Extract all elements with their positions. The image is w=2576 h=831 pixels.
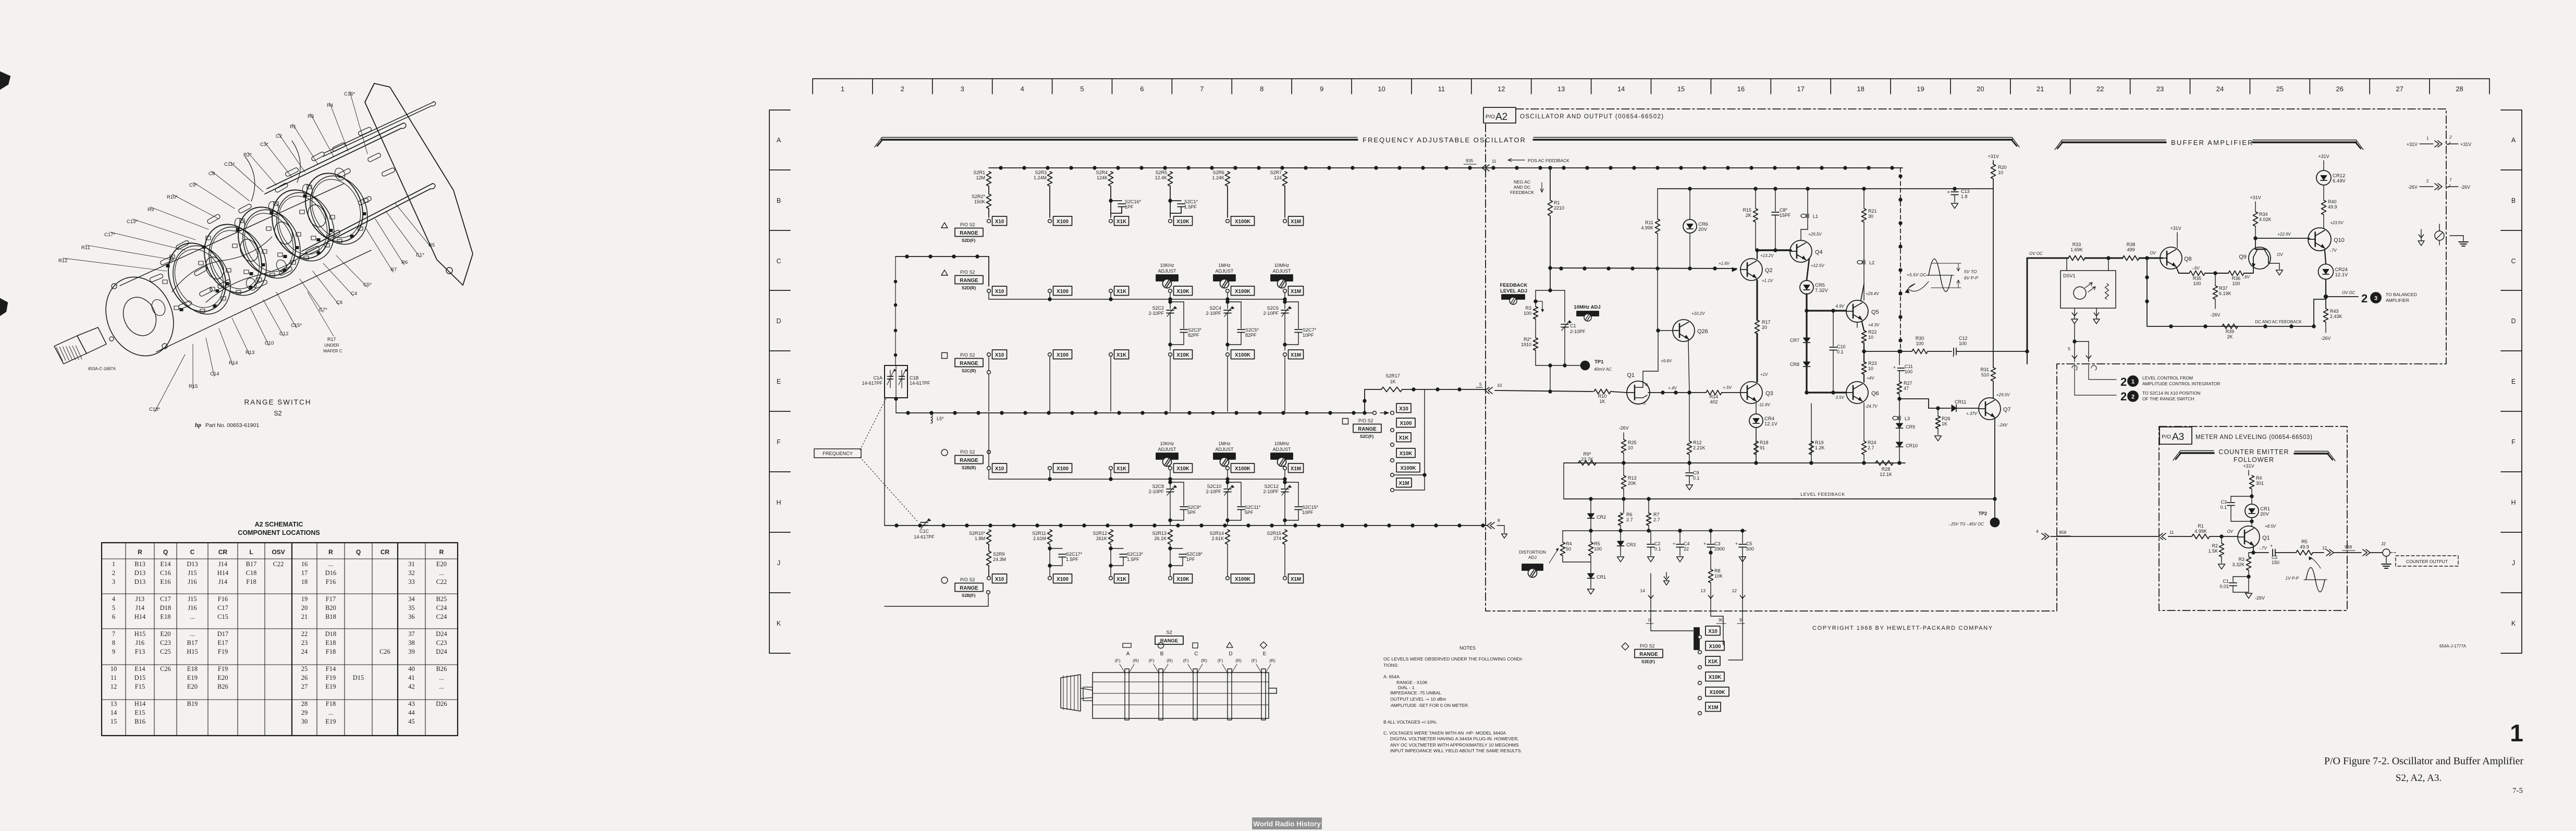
svg-text:C12: C12: [279, 331, 288, 337]
rotor hubs: [202, 254, 227, 282]
svg-text:F18: F18: [326, 700, 336, 707]
svg-text:S2C9*: S2C9*: [1187, 505, 1201, 510]
svg-text:27: 27: [301, 683, 308, 690]
svg-text:B16: B16: [134, 718, 145, 725]
svg-text:2: 2: [2449, 135, 2452, 140]
svg-text:OUTPUT LEVEL -+ 10 dBm: OUTPUT LEVEL -+ 10 dBm: [1390, 696, 1446, 702]
svg-text:...: ...: [328, 560, 333, 568]
svg-text:R12: R12: [1693, 440, 1702, 445]
svg-text:UNDER: UNDER: [324, 343, 339, 348]
svg-text:H14: H14: [134, 613, 146, 620]
svg-text:100: 100: [1524, 311, 1531, 316]
resistor S2R9: [988, 544, 989, 551]
svg-text:124K: 124K: [1097, 175, 1108, 180]
svg-text:+31V: +31V: [2318, 154, 2329, 159]
contact X10 row5: [987, 577, 991, 580]
svg-text:Q3: Q3: [1765, 390, 1773, 397]
svg-text:P/O: P/O: [2162, 434, 2171, 440]
drum right stub: [1269, 688, 1277, 689]
svg-text:F19: F19: [326, 674, 336, 681]
svg-text:H15: H15: [187, 648, 198, 655]
sine wave annotation: [1929, 259, 1952, 291]
left row-letter column: [769, 110, 790, 653]
transistor Q8: [2160, 247, 2182, 269]
svg-text:ADJUST: ADJUST: [1272, 447, 1291, 452]
capacitor C1 0.01: [2233, 576, 2249, 577]
svg-text:S2R2*: S2R2*: [972, 194, 986, 199]
inductor L5*: [931, 414, 933, 423]
trimmer capacitor S2C2: [1170, 299, 1171, 309]
lamp-photocell DSV1: [2066, 258, 2067, 271]
pot R4 50: [1562, 531, 1563, 542]
capacitor S2C11*: [1226, 481, 1229, 484]
Q4 emitter chain CR5: [1807, 259, 1809, 280]
svg-text:F19: F19: [218, 665, 228, 673]
svg-text:2900: 2900: [1714, 546, 1725, 552]
svg-text:FREQUENCY ADJUSTABLE OSCILLATO: FREQUENCY ADJUSTABLE OSCILLATOR: [1363, 136, 1526, 144]
svg-text:hp: hp: [195, 422, 201, 429]
svg-text:499: 499: [2127, 247, 2135, 252]
svg-text:P/O S2: P/O S2: [960, 449, 975, 455]
svg-text:18: 18: [1857, 85, 1864, 93]
svg-text:1.2K: 1.2K: [1815, 445, 1825, 450]
svg-text:5PF: 5PF: [1187, 510, 1196, 515]
svg-text:DC ANO AC FEEOBACK: DC ANO AC FEEOBACK: [2255, 320, 2302, 324]
contact X1M row3: [1283, 353, 1287, 357]
svg-text:X10K: X10K: [1176, 219, 1189, 225]
resistor R26 1K: [1937, 408, 1939, 416]
svg-text:S2: S2: [274, 410, 281, 417]
svg-text:10: 10: [111, 665, 117, 673]
svg-text:R15: R15: [189, 384, 198, 389]
svg-text:0.1: 0.1: [2220, 505, 2227, 510]
svg-text:R2: R2: [2212, 543, 2218, 548]
svg-text:RANGE: RANGE: [1358, 426, 1377, 432]
transistor Q2: [1740, 259, 1762, 280]
svg-text:X1M: X1M: [1291, 466, 1301, 472]
svg-text:23: 23: [2156, 85, 2164, 93]
svg-text:C22: C22: [436, 578, 447, 585]
svg-text:A. 654A.: A. 654A.: [1383, 674, 1401, 679]
svg-text:-.6V: -.6V: [2192, 266, 2200, 271]
svg-text:S2D(R): S2D(R): [962, 286, 976, 290]
svg-text:301: 301: [2256, 481, 2264, 486]
svg-text:S2C11*: S2C11*: [1245, 505, 1261, 510]
svg-text:2: 2: [112, 569, 115, 577]
svg-text:X1K: X1K: [1117, 289, 1126, 295]
svg-text:CR1: CR1: [1597, 575, 1606, 580]
svg-text:R: R: [439, 548, 444, 556]
contact X10K row1: [1169, 219, 1172, 223]
bus row C short: [896, 256, 989, 257]
svg-text:20V: 20V: [1698, 227, 1708, 233]
svg-text:510: 510: [1981, 372, 1989, 377]
svg-text:C11: C11: [1905, 364, 1913, 369]
svg-text:S2D(F): S2D(F): [962, 238, 976, 243]
svg-text:R35: R35: [2193, 276, 2202, 281]
svg-text:R25: R25: [1628, 440, 1637, 445]
contact X100 row3: [1048, 353, 1052, 357]
gang line vertical left: [895, 256, 896, 365]
svg-text:1MHz: 1MHz: [1218, 441, 1231, 446]
svg-text:X100K: X100K: [1401, 466, 1416, 471]
svg-text:14-617PF: 14-617PF: [862, 381, 882, 386]
svg-text:X100: X100: [1057, 577, 1069, 582]
svg-text:31: 31: [408, 560, 415, 568]
svg-text:1.8: 1.8: [1961, 194, 1968, 199]
svg-text:4: 4: [1021, 85, 1024, 93]
svg-text:S2R4: S2R4: [1096, 170, 1108, 175]
svg-text:7-5: 7-5: [2512, 787, 2523, 795]
svg-text:D15: D15: [134, 674, 146, 681]
resistor R17 20: [1755, 320, 1760, 334]
svg-text:5: 5: [1080, 85, 1084, 93]
svg-text:S2, A2, A3.: S2, A2, A3.: [2396, 773, 2442, 784]
svg-text:9: 9: [112, 648, 115, 655]
svg-text:LEVEL FEEDBACK: LEVEL FEEDBACK: [1800, 492, 1845, 497]
drum switch drawing: [1093, 673, 1269, 718]
wire to Q7 base with CR11: [1899, 398, 1929, 399]
svg-text:21: 21: [301, 613, 308, 620]
svg-text:X10K: X10K: [1176, 289, 1189, 295]
svg-text:15PF: 15PF: [1780, 213, 1791, 218]
svg-text:S2R9: S2R9: [993, 552, 1005, 557]
svg-text:RANGE: RANGE: [960, 585, 978, 591]
inductor L3: [1893, 417, 1898, 420]
svg-text:X10K: X10K: [1176, 352, 1189, 358]
svg-text:10: 10: [1868, 366, 1873, 371]
svg-text:X1M: X1M: [1291, 219, 1301, 225]
svg-text:S2C17*: S2C17*: [1066, 552, 1083, 557]
svg-text:R6: R6: [1626, 512, 1633, 517]
svg-text:E18: E18: [187, 665, 198, 673]
DSV1 to external references: [2074, 324, 2075, 341]
svg-text:13: 13: [1701, 588, 1706, 593]
svg-text:S2R17: S2R17: [1385, 373, 1400, 378]
svg-text:RANGE - X10K: RANGE - X10K: [1396, 680, 1428, 685]
svg-text:X10: X10: [995, 577, 1004, 582]
svg-text:B: B: [2511, 197, 2516, 204]
svg-text:100: 100: [1594, 546, 1602, 552]
capacitor S2C1*: [1169, 199, 1172, 202]
svg-text:32: 32: [408, 569, 415, 577]
svg-text:COUNTER EMITTER: COUNTER EMITTER: [2218, 448, 2289, 456]
svg-text:12.4K: 12.4K: [1155, 175, 1167, 180]
testpoint TP1: [1581, 361, 1590, 370]
svg-text:28: 28: [301, 700, 308, 707]
svg-text:L: L: [249, 548, 253, 556]
svg-text:14-617PF: 14-617PF: [914, 534, 935, 540]
svg-text:0.1: 0.1: [1837, 349, 1844, 355]
svg-text:2.7: 2.7: [1626, 517, 1633, 522]
resistor R13 20K: [1623, 463, 1624, 475]
contact X1K row3: [1109, 353, 1113, 357]
svg-text:0.1: 0.1: [1654, 546, 1661, 552]
svg-text:+31V: +31V: [2243, 463, 2254, 469]
svg-text:34: 34: [408, 595, 415, 603]
svg-text:AMPLITUDE -SET FOR 0 ON METER.: AMPLITUDE -SET FOR 0 ON METER.: [1391, 703, 1469, 708]
svg-text:C23: C23: [436, 639, 447, 646]
diode CR9: [1899, 399, 1900, 423]
svg-text:DIGITAL VOLTMETER HAVING A 344: DIGITAL VOLTMETER HAVING A 3443A PLUG-IN…: [1390, 736, 1519, 741]
svg-text:1K: 1K: [1390, 379, 1395, 384]
svg-text:R27: R27: [1904, 381, 1912, 386]
svg-text:2-10PF: 2-10PF: [1206, 311, 1221, 316]
Q7 emitter to TP2: [1994, 418, 1995, 499]
svg-text:R3: R3: [2238, 557, 2244, 562]
svg-text:X1M: X1M: [1291, 289, 1301, 295]
diode CR7: [1804, 338, 1810, 343]
svg-text:AMPLIFIER: AMPLIFIER: [2386, 298, 2409, 303]
row4 link wire: [989, 479, 1285, 480]
svg-text:ADJUST: ADJUST: [1215, 447, 1234, 452]
svg-text:X100: X100: [1057, 352, 1069, 358]
Q9 collector to ground: [2268, 263, 2279, 264]
svg-text:Q5: Q5: [1871, 309, 1879, 315]
resistor R30 100: [1912, 349, 1928, 354]
svg-text:Q4: Q4: [1815, 249, 1823, 255]
svg-text:A2: A2: [1495, 112, 1507, 123]
svg-text:E14: E14: [134, 665, 145, 673]
svg-text:6: 6: [112, 613, 115, 620]
reference 2-1 LEVEL CONTROL: [2088, 365, 2089, 380]
svg-text:42: 42: [408, 683, 415, 690]
svg-text:X1K: X1K: [1399, 435, 1408, 441]
A3 assembly dashed boundary: [2159, 426, 2347, 610]
svg-text:7: 7: [1200, 85, 1204, 93]
svg-text:J15: J15: [188, 595, 197, 603]
trimmer capacitor S2C12: [1284, 479, 1285, 488]
resistor R20 10: [1991, 164, 1996, 179]
diode CR10: [1899, 429, 1900, 442]
svg-text:3.32K: 3.32K: [2232, 562, 2244, 567]
svg-text:D24: D24: [436, 648, 447, 655]
svg-text:F13: F13: [135, 648, 145, 655]
capacitor S2C7*: [1283, 300, 1286, 303]
svg-text:E14: E14: [160, 560, 171, 568]
svg-text:P/O S2: P/O S2: [1640, 643, 1654, 649]
zener CR24 12.1V: [2319, 264, 2334, 279]
svg-text:X100K: X100K: [1235, 219, 1250, 225]
svg-text:CR: CR: [381, 548, 390, 556]
svg-text:7: 7: [2449, 178, 2452, 182]
svg-text:R22: R22: [1868, 329, 1877, 335]
svg-text:12: 12: [1498, 85, 1505, 93]
svg-text:12M: 12M: [976, 175, 985, 180]
svg-text:47: 47: [1904, 386, 1909, 391]
svg-text:X100: X100: [1057, 289, 1069, 295]
svg-text:2: 2: [2426, 179, 2429, 184]
cluster bottom wire: [1536, 365, 1581, 366]
contact X10 S2E(F) stack: [1706, 626, 1720, 636]
resistor R23 10: [1862, 350, 1866, 353]
svg-text:F17: F17: [326, 595, 336, 603]
banner COUNTER EMITTER FOLLOWER: [2180, 450, 2214, 451]
resistor R10 1K: [1594, 389, 1611, 394]
svg-text:S2R3: S2R3: [1035, 170, 1047, 175]
svg-text:R1: R1: [1554, 200, 1560, 205]
svg-text:2-10PF: 2-10PF: [1206, 489, 1221, 494]
svg-text:C10: C10: [265, 340, 274, 346]
svg-text:1K: 1K: [1599, 399, 1605, 404]
svg-text:ADJUST: ADJUST: [1215, 268, 1234, 274]
svg-text:1: 1: [112, 560, 115, 568]
svg-text:1: 1: [2426, 136, 2429, 141]
svg-text:H14: H14: [217, 569, 229, 577]
svg-text:4.9V: 4.9V: [1836, 304, 1845, 309]
svg-text:C2: C2: [2272, 555, 2278, 560]
svg-text:20: 20: [301, 604, 308, 612]
capacitor S2C18*: [1170, 544, 1171, 548]
svg-text:10MHz ADJ: 10MHz ADJ: [1574, 304, 1600, 310]
contact X10K row5: [1169, 577, 1172, 580]
capacitor C5 500: [1742, 531, 1743, 543]
svg-text:C9: C9: [1693, 470, 1699, 475]
switch wafers: [158, 234, 236, 321]
svg-text:1.8M: 1.8M: [975, 536, 985, 541]
svg-text:R18: R18: [1760, 440, 1769, 445]
svg-text:124: 124: [1274, 175, 1282, 180]
svg-text:82PF: 82PF: [1188, 333, 1199, 338]
svg-text:B26: B26: [436, 665, 447, 673]
svg-text:2.61M: 2.61M: [1033, 536, 1046, 541]
svg-text:1PF: 1PF: [1125, 204, 1134, 210]
svg-text:A: A: [2511, 137, 2516, 144]
svg-text:RANGE: RANGE: [960, 230, 978, 236]
svg-text:J2: J2: [2381, 541, 2386, 546]
svg-text:R12: R12: [58, 258, 67, 264]
svg-text:J14: J14: [218, 560, 228, 568]
svg-text:A2 SCHEMATIC: A2 SCHEMATIC: [255, 521, 303, 528]
svg-text:H15: H15: [134, 630, 146, 638]
svg-text:R37: R37: [2219, 286, 2228, 291]
svg-text:X100: X100: [1057, 466, 1069, 472]
svg-text:22: 22: [1684, 546, 1689, 552]
svg-text:C: C: [2511, 258, 2516, 265]
resistor S2R14: [1225, 530, 1230, 544]
svg-text:+31V: +31V: [2407, 142, 2418, 147]
resistor R12 2.21K: [1689, 393, 1690, 441]
svg-text:C3*: C3*: [260, 142, 268, 148]
svg-text:+13.2V: +13.2V: [1760, 253, 1774, 258]
capacitor C3 0.1: [2231, 496, 2252, 497]
svg-text:20V: 20V: [2260, 511, 2270, 517]
svg-text:BUFFER AMPLIFIER: BUFFER AMPLIFIER: [2171, 139, 2254, 146]
svg-text:P/O S2: P/O S2: [960, 352, 975, 358]
svg-text:C26: C26: [379, 648, 390, 655]
svg-text:Q1: Q1: [1627, 372, 1635, 378]
svg-text:H: H: [2511, 499, 2516, 506]
svg-text:J16: J16: [188, 578, 197, 585]
COUNTER OUTPUT dashed box: [2390, 552, 2396, 553]
svg-text:1.24K: 1.24K: [1212, 175, 1224, 180]
svg-text:S2R7: S2R7: [1270, 170, 1282, 175]
svg-text:P/O: P/O: [1486, 114, 1495, 120]
svg-text:1V P-P: 1V P-P: [2286, 576, 2299, 581]
svg-text:R23: R23: [1868, 361, 1877, 366]
svg-text:100: 100: [1959, 341, 1967, 346]
transistor Q3: [1740, 382, 1762, 404]
svg-text:B17: B17: [246, 560, 257, 568]
inductor L1: [1807, 189, 1808, 229]
svg-text:49.9: 49.9: [2300, 544, 2309, 549]
svg-text:1: 1: [2131, 379, 2135, 385]
svg-text:5: 5: [2068, 346, 2070, 351]
resistor R8 10K: [1709, 551, 1712, 554]
row2 link wire: [989, 299, 1285, 300]
svg-text:30: 30: [301, 718, 308, 725]
resistor R2* 1910: [1534, 338, 1538, 350]
svg-text:+10.2V: +10.2V: [1691, 311, 1705, 316]
svg-text:IMPEDANCE -75 UNBAL: IMPEDANCE -75 UNBAL: [1390, 690, 1441, 695]
svg-text:2K: 2K: [1746, 213, 1751, 218]
svg-text:2.7: 2.7: [1868, 445, 1874, 450]
svg-text:S2R1: S2R1: [973, 170, 985, 175]
svg-text:-.25V TO -.45V OC: -.25V TO -.45V OC: [1948, 522, 1984, 527]
film edge mark upper left: [0, 71, 10, 90]
front bushing disc: [139, 316, 140, 317]
svg-text:958: 958: [2059, 530, 2066, 535]
svg-text:R10: R10: [1598, 394, 1607, 399]
svg-text:R5: R5: [1594, 541, 1600, 546]
svg-text:-26V: -26V: [2210, 312, 2220, 317]
svg-text:90: 90: [1719, 617, 1724, 622]
svg-text:Q9: Q9: [2239, 254, 2247, 260]
varcap C1A: [888, 376, 893, 377]
svg-text:2-10PF: 2-10PF: [1570, 329, 1586, 334]
svg-text:P/O S2: P/O S2: [960, 222, 975, 227]
resistor R39 2K: [2222, 324, 2238, 329]
svg-text:F15: F15: [135, 683, 145, 690]
svg-text:24.3M: 24.3M: [993, 557, 1006, 562]
svg-text:0.01: 0.01: [2219, 584, 2229, 589]
svg-text:+1V: +1V: [1760, 372, 1768, 377]
svg-text:8: 8: [1260, 85, 1264, 93]
svg-text:(F): (F): [1218, 658, 1223, 663]
contact X100 row5: [1048, 577, 1052, 580]
svg-text:B20: B20: [325, 604, 336, 612]
svg-text:+12.5V: +12.5V: [1811, 263, 1824, 268]
FET Q1: [1627, 381, 1650, 404]
svg-text:+: +: [1673, 541, 1675, 546]
svg-text:Q: Q: [356, 548, 361, 556]
svg-text:+22.9V: +22.9V: [2277, 232, 2291, 237]
svg-text:150: 150: [2272, 560, 2279, 565]
svg-text:R30: R30: [1916, 336, 1924, 341]
svg-text:FEEDBACK: FEEDBACK: [1500, 283, 1528, 288]
varcap C1B: [899, 376, 905, 377]
A3 title box P/O A3: [2160, 427, 2192, 444]
svg-text:S2R11: S2R11: [1032, 531, 1046, 536]
svg-text:10PF: 10PF: [1302, 510, 1314, 515]
banner FREQUENCY ADJUSTABLE OSCILLATOR: [882, 137, 1357, 138]
svg-text:J16: J16: [136, 639, 144, 646]
svg-text:C3: C3: [2221, 499, 2227, 505]
svg-text:H: H: [776, 499, 781, 506]
svg-text:R6: R6: [401, 260, 408, 265]
chassis ground cluster: [2421, 229, 2422, 241]
wiper bar black: [1694, 628, 1699, 650]
svg-text:D: D: [1229, 651, 1232, 657]
svg-text:X1K: X1K: [1117, 219, 1126, 225]
capacitor C3 2900: [1710, 531, 1711, 543]
trimmer capacitor S2C4: [1227, 299, 1228, 309]
svg-text:Q7: Q7: [2003, 407, 2011, 413]
svg-text:F18: F18: [246, 578, 256, 585]
feedback level network: [1549, 289, 1552, 292]
svg-text:C16*: C16*: [344, 91, 355, 97]
svg-text:2-10PF: 2-10PF: [1148, 311, 1164, 316]
